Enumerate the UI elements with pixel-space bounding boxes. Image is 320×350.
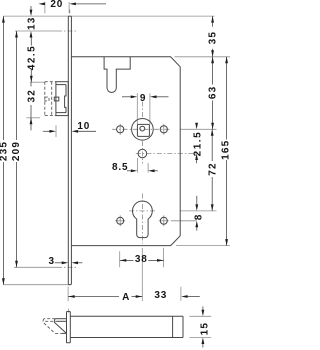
svg-text:72: 72	[208, 162, 219, 176]
svg-text:15: 15	[200, 322, 211, 336]
svg-text:165: 165	[220, 140, 230, 160]
svg-text:13: 13	[26, 16, 37, 30]
svg-text:20: 20	[50, 0, 63, 10]
svg-text:A: A	[122, 292, 129, 303]
svg-text:8.5: 8.5	[112, 162, 128, 173]
svg-text:3: 3	[49, 256, 55, 267]
svg-text:33: 33	[154, 290, 167, 301]
svg-text:42.5: 42.5	[27, 45, 38, 70]
svg-text:38: 38	[135, 254, 148, 265]
svg-text:209: 209	[11, 141, 22, 161]
svg-text:21.5: 21.5	[192, 131, 203, 156]
svg-text:32: 32	[26, 89, 37, 103]
svg-text:35: 35	[207, 31, 218, 45]
svg-text:235: 235	[0, 141, 10, 161]
svg-text:9: 9	[140, 93, 146, 104]
svg-text:10: 10	[77, 121, 90, 132]
svg-text:63: 63	[207, 86, 218, 100]
svg-text:8: 8	[193, 214, 204, 221]
